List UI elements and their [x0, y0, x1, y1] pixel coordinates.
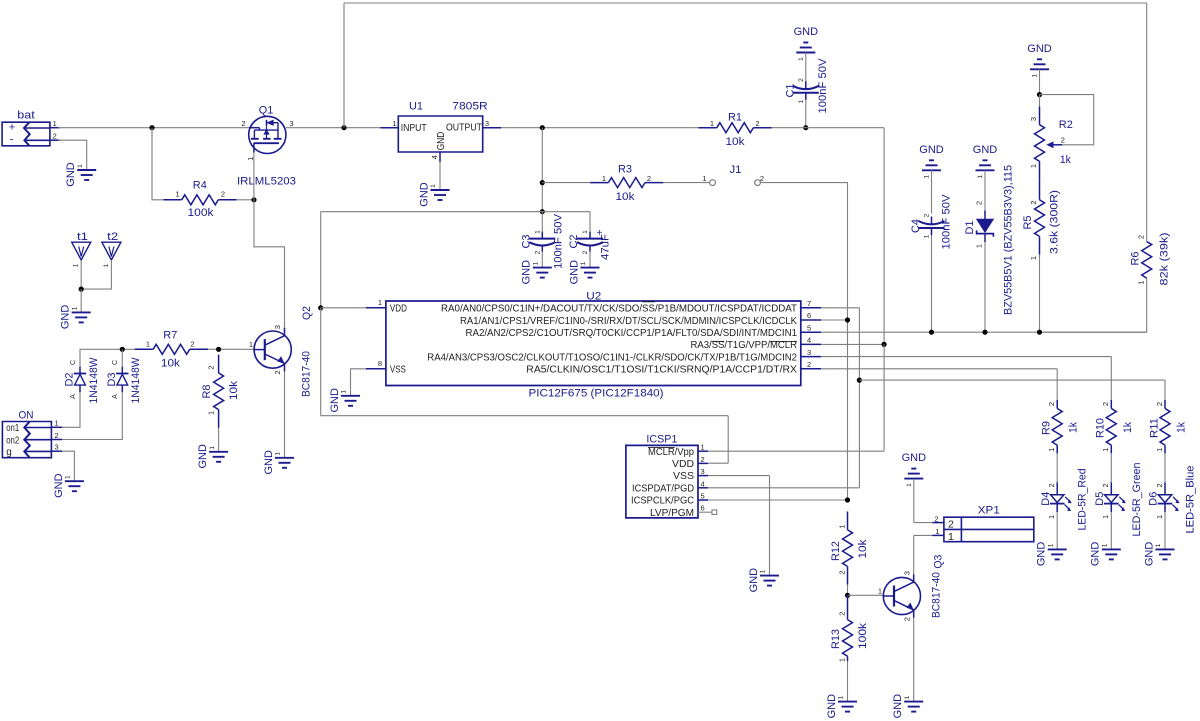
wire C3 drop [541, 212, 543, 232]
resistor R11 1k [1148, 400, 1187, 454]
svg-text:GND: GND [794, 26, 819, 38]
svg-text:MCLR/Vpp: MCLR/Vpp [648, 447, 694, 458]
svg-text:1: 1 [1029, 256, 1038, 260]
ground GND below D4 [1036, 542, 1067, 567]
ground GND below D6 [1143, 542, 1174, 567]
connector bat (battery input) [2, 110, 60, 146]
wire t1 down [80, 260, 82, 289]
svg-text:GND: GND [919, 144, 944, 156]
svg-text:g: g [6, 447, 12, 458]
svg-text:+: + [9, 122, 15, 134]
wire Q3 emitter to GND [913, 618, 915, 701]
svg-text:GND: GND [521, 260, 533, 285]
transistor Q3 BC817-40 [883, 574, 920, 618]
resistor R7 10k [135, 329, 208, 369]
svg-text:VDD: VDD [390, 304, 407, 315]
junction R3 tap node [540, 180, 545, 185]
potentiometer R2 1k [1029, 106, 1073, 179]
wire R2 wiper loop [1040, 95, 1094, 145]
wire D3 cathode up [121, 349, 123, 366]
wire GND to C4 [931, 170, 933, 213]
junction R5 rail node [1037, 330, 1042, 335]
svg-text:ICSPDAT/PGD: ICSPDAT/PGD [632, 483, 694, 494]
svg-text:2: 2 [1155, 402, 1164, 406]
wire top rail down right side to R6 [1146, 3, 1148, 242]
svg-text:1: 1 [55, 419, 59, 428]
svg-text:Q2: Q2 [301, 306, 313, 320]
svg-text:100nF 50V: 100nF 50V [941, 194, 953, 250]
wire Q3 collector to XP1 pin1 [914, 535, 933, 574]
svg-text:1: 1 [838, 658, 847, 662]
svg-text:3: 3 [807, 348, 811, 357]
ground GND below R8 [197, 444, 228, 469]
resistor R12 10k [830, 512, 869, 585]
svg-text:1: 1 [175, 189, 179, 198]
svg-text:GND: GND [892, 694, 904, 719]
wire D2 cathode up to R7 net [80, 349, 135, 366]
svg-text:Q1: Q1 [259, 104, 274, 116]
svg-text:1: 1 [392, 119, 396, 128]
svg-text:2: 2 [1101, 402, 1110, 406]
svg-text:1: 1 [702, 174, 706, 183]
resistor R1 10k [699, 111, 772, 148]
svg-text:C: C [70, 360, 77, 365]
svg-text:C4: C4 [910, 219, 922, 233]
junction bat/R4/Q1 node [149, 125, 154, 130]
junction D3/R7 node [120, 347, 125, 352]
svg-text:GND: GND [568, 260, 580, 285]
svg-text:1: 1 [1032, 74, 1039, 78]
svg-text:3: 3 [701, 467, 705, 476]
junction U2 VDD node [318, 305, 323, 310]
svg-text:R8: R8 [201, 385, 213, 399]
svg-text:RA2/AN2/CPS2/C1OUT/SRQ/T0CKI/C: RA2/AN2/CPS2/C1OUT/SRQ/T0CKI/CCP1/P1A/FL… [466, 328, 798, 339]
wire GND to XP1 pin2 [914, 479, 932, 523]
svg-text:LED-5R_Red: LED-5R_Red [1077, 469, 1089, 531]
svg-text:R13: R13 [830, 629, 842, 649]
svg-text:A: A [70, 394, 77, 399]
svg-text:2: 2 [701, 455, 705, 464]
svg-text:3: 3 [485, 119, 489, 128]
wire R5 to RA2 rail [1039, 255, 1041, 333]
wire GND to C1 pin2 [805, 53, 807, 86]
svg-text:ON: ON [19, 409, 34, 421]
wire D3 anode to ON pin2 [62, 392, 122, 439]
svg-text:OUTPUT: OUTPUT [446, 122, 482, 134]
wire R2 top node down [1039, 95, 1041, 107]
svg-text:t2: t2 [107, 231, 118, 243]
resistor R8 10k [201, 355, 240, 428]
svg-text:1: 1 [878, 586, 882, 595]
svg-text:GND: GND [329, 388, 341, 413]
wire U1 output to R1 [501, 127, 699, 129]
svg-text:GND: GND [60, 305, 72, 330]
junction R2 top node [1037, 92, 1042, 97]
wire C1 to output rail [805, 100, 807, 128]
svg-text:2: 2 [647, 174, 651, 183]
wire R13 to GND [847, 661, 849, 701]
svg-text:1: 1 [580, 261, 587, 265]
wire D6 to GND [1164, 512, 1166, 549]
wire R6 to RA2 rail [1043, 278, 1147, 332]
svg-text:2: 2 [1155, 483, 1164, 487]
wire U2 pin4 to MCLR riser [821, 343, 884, 345]
wire D2 anode to ON pin1 [62, 392, 80, 427]
svg-text:2: 2 [1136, 235, 1145, 239]
svg-text:GND: GND [1036, 542, 1048, 567]
svg-text:1: 1 [535, 230, 542, 234]
svg-text:on2: on2 [6, 435, 19, 446]
svg-text:1: 1 [838, 524, 847, 528]
svg-text:on1: on1 [6, 423, 19, 434]
svg-text:LVP/PGM: LVP/PGM [650, 508, 694, 519]
svg-text:R10: R10 [1095, 418, 1107, 438]
svg-text:10k: 10k [161, 357, 181, 369]
wire Q1 drain to Q2 collector [254, 200, 285, 329]
svg-text:R6: R6 [1129, 252, 1141, 266]
svg-text:4: 4 [430, 155, 439, 159]
svg-text:1: 1 [977, 175, 984, 179]
svg-text:10k: 10k [616, 191, 636, 203]
svg-text:2: 2 [1029, 200, 1038, 204]
svg-text:3.6k (300R): 3.6k (300R) [1049, 190, 1061, 254]
svg-text:1k: 1k [1060, 154, 1071, 166]
wire VDD rail down to U2 VDD [320, 212, 322, 308]
ground GND below Q2 [263, 450, 294, 475]
junction U1 output node [540, 125, 545, 130]
ground GND above C1 [794, 26, 819, 61]
svg-text:C1: C1 [785, 84, 797, 98]
svg-text:3: 3 [289, 119, 293, 128]
junction C1 node [803, 125, 808, 130]
wire C2 to GND [589, 252, 591, 268]
svg-text:ICSP1: ICSP1 [646, 433, 677, 445]
wire ICSP LVP/PGM stub [698, 511, 712, 513]
svg-text:BC817-40: BC817-40 [301, 351, 313, 397]
svg-text:1: 1 [206, 411, 215, 415]
wire RA0 branch to R11 [859, 380, 1165, 400]
wire VDD node to U2 pin1 [321, 307, 366, 309]
svg-text:1: 1 [73, 263, 80, 267]
svg-text:1: 1 [838, 695, 845, 699]
svg-text:1: 1 [65, 475, 72, 479]
svg-text:bat: bat [17, 110, 35, 122]
svg-text:1: 1 [1029, 164, 1038, 168]
svg-text:2: 2 [535, 250, 542, 254]
svg-text:1: 1 [1155, 515, 1164, 519]
wire R10 to D5 [1110, 453, 1112, 482]
svg-text:GND: GND [197, 444, 209, 469]
junction RA0 net to R11 branch [857, 378, 862, 383]
svg-text:1: 1 [1101, 448, 1110, 452]
ground GND below C3 [521, 260, 552, 285]
svg-text:R7: R7 [163, 329, 177, 341]
wire VDD rail to C2/C3 [321, 212, 590, 232]
svg-text:1: 1 [103, 263, 110, 267]
svg-text:Q3: Q3 [933, 555, 945, 569]
svg-text:1: 1 [935, 527, 939, 536]
svg-text:2: 2 [838, 612, 847, 616]
svg-text:2: 2 [798, 78, 805, 82]
ground GND above D1 [973, 144, 998, 179]
svg-text:2: 2 [55, 431, 59, 440]
wire C3 to GND [541, 252, 543, 268]
svg-text:4: 4 [807, 336, 811, 345]
svg-text:R3: R3 [618, 164, 632, 176]
svg-text:GND: GND [1090, 542, 1102, 567]
svg-text:D2: D2 [64, 373, 76, 387]
junction R4/Q1 drain node [251, 197, 256, 202]
svg-text:1: 1 [924, 234, 931, 238]
svg-text:2: 2 [1047, 402, 1056, 406]
ground GND above XP1 [902, 452, 927, 487]
svg-text:BC817-40: BC817-40 [931, 572, 943, 618]
testpoint t1 [72, 231, 91, 268]
svg-text:82k (39k): 82k (39k) [1159, 233, 1171, 286]
wire GND to R2 node [1039, 69, 1041, 94]
svg-text:1k: 1k [1068, 422, 1080, 433]
svg-text:LED-5R_Blue: LED-5R_Blue [1185, 466, 1197, 534]
svg-text:100nF 50V: 100nF 50V [553, 213, 565, 269]
svg-text:2: 2 [190, 339, 194, 348]
svg-text:-: - [10, 134, 14, 146]
svg-text:1: 1 [209, 446, 216, 450]
svg-text:GND: GND [263, 450, 275, 475]
diode D2 1N4148W [64, 357, 100, 404]
ground GND below Q3 [892, 694, 923, 719]
svg-text:1: 1 [1136, 280, 1145, 284]
svg-text:1: 1 [249, 340, 253, 349]
wire U2 pin6 to ICSPCLK net [821, 319, 848, 321]
wire D5 to GND [1110, 512, 1112, 549]
diode D3 1N4148W [106, 357, 142, 404]
svg-text:3: 3 [902, 571, 911, 575]
svg-text:INPUT: INPUT [401, 122, 427, 134]
capacitor C2 47uF [577, 232, 603, 252]
transistor Q1 IRLML5203 P-MOSFET [237, 104, 296, 187]
ground GND above C4 [919, 144, 944, 179]
capacitor C3 100nF 50V [529, 232, 555, 252]
svg-text:8: 8 [378, 359, 382, 368]
wire R7 pin2 to Q2 base [208, 348, 254, 350]
svg-text:1: 1 [904, 695, 911, 699]
svg-text:100nF 50V: 100nF 50V [817, 58, 829, 114]
ground GND below C2 [568, 260, 599, 285]
resistor R9 1k [1041, 400, 1080, 454]
svg-text:6: 6 [701, 504, 705, 513]
wire Q1 drain right to U1 input [286, 127, 381, 129]
svg-text:1: 1 [1155, 448, 1164, 452]
junction ICSPCLK/R12 node [845, 497, 850, 502]
junction ICSPCLK/J1 node [845, 317, 850, 322]
svg-text:2: 2 [241, 119, 245, 128]
wire R9 to D4 [1056, 453, 1058, 482]
ground GND below ON [53, 473, 84, 498]
wire R11 to D6 [1164, 453, 1166, 482]
svg-text:1: 1 [1047, 448, 1056, 452]
wire U2 pin7 RA0 net [708, 308, 859, 488]
svg-text:1: 1 [378, 298, 382, 307]
svg-text:3: 3 [1029, 117, 1038, 121]
svg-text:1: 1 [760, 569, 767, 573]
svg-text:2: 2 [807, 360, 811, 369]
capacitor C1 100nF 50V [793, 81, 819, 100]
junction R12/R13/Q3 base node [845, 593, 850, 598]
svg-text:1: 1 [533, 261, 540, 265]
diode D1 zener BZV55B5V1 [964, 165, 1015, 315]
wire R1 pin2 to MCLR riser [772, 128, 884, 345]
svg-text:1: 1 [77, 164, 84, 168]
ground GND below R13 [826, 694, 857, 719]
svg-text:D6: D6 [1148, 492, 1160, 506]
svg-text:1N4148W: 1N4148W [88, 357, 100, 404]
svg-text:D4: D4 [1040, 492, 1052, 506]
svg-text:BZV55B5V1 (BZV55B3V3),115: BZV55B5V1 (BZV55B3V3),115 [1003, 165, 1015, 315]
svg-text:RA1/AN1/CPS1/VREF/C1IN0-/SRI/R: RA1/AN1/CPS1/VREF/C1IN0-/SRI/RX/DT/SCL/S… [460, 316, 797, 327]
LED D6 LED-5R_Blue [1148, 466, 1197, 534]
wire top rail [344, 2, 1147, 4]
svg-text:2: 2 [273, 370, 282, 374]
svg-text:1: 1 [1047, 543, 1054, 547]
svg-text:2: 2 [53, 131, 57, 140]
svg-text:GND: GND [65, 162, 77, 187]
svg-text:RA3/SS/T1G/VPP/MCLR: RA3/SS/T1G/VPP/MCLR [691, 340, 798, 351]
svg-text:GND: GND [973, 144, 998, 156]
svg-text:100k: 100k [188, 207, 215, 219]
LED D4 LED-5R_Red [1040, 469, 1089, 531]
svg-text:GND: GND [902, 452, 927, 464]
svg-text:IRLML5203: IRLML5203 [237, 175, 296, 187]
junction R7/R8/Q2 base node [216, 347, 221, 352]
wire Q2 emitter to GND [284, 371, 286, 457]
wire C4 to RA2 rail [931, 235, 933, 332]
ground GND below D5 [1090, 542, 1121, 567]
svg-text:2: 2 [1047, 483, 1056, 487]
svg-text:R2: R2 [1059, 119, 1073, 131]
svg-text:1: 1 [341, 390, 348, 394]
ground GND below U2 VSS [329, 388, 360, 413]
wire ICSP ICSPCLK [708, 499, 848, 501]
svg-text:R9: R9 [1041, 421, 1053, 435]
svg-text:RA0/AN0/CPS0/C1IN+/DACOUT/TX/C: RA0/AN0/CPS0/C1IN+/DACOUT/TX/CK/SDO/SS/P… [441, 304, 797, 315]
svg-text:10k: 10k [726, 136, 746, 148]
svg-text:1k: 1k [1122, 422, 1134, 433]
svg-text:1N4148W: 1N4148W [130, 357, 142, 404]
junction C4 rail node [929, 330, 934, 335]
wire MCLR riser to ICSP pin1 [708, 344, 884, 451]
connector XP1 [932, 504, 1034, 543]
resistor R10 1k [1095, 400, 1134, 454]
svg-text:D5: D5 [1094, 492, 1106, 506]
wire ICSP VSS to GND [708, 476, 770, 576]
ground GND below ICSP VSS [748, 568, 779, 593]
svg-text:U1: U1 [409, 101, 423, 113]
wire U2 VSS to GND [351, 369, 367, 396]
svg-text:R4: R4 [193, 180, 207, 192]
svg-text:1k: 1k [1176, 422, 1188, 433]
svg-text:2: 2 [206, 366, 215, 370]
junction C3 rail node [540, 209, 545, 214]
wire VDD to ICSP VDD [321, 416, 729, 464]
svg-text:A: A [112, 394, 119, 399]
IC U2 PIC12F675 [366, 291, 821, 400]
svg-text:7: 7 [807, 299, 811, 308]
resistor R13 100k [830, 595, 869, 662]
svg-text:ICSPCLK/PGC: ICSPCLK/PGC [631, 496, 694, 507]
wire Q1 gate down to drain junction [253, 153, 255, 200]
svg-text:1: 1 [53, 119, 57, 128]
wire riser to top rail [343, 3, 345, 128]
svg-text:1: 1 [146, 339, 150, 348]
wire U2 pin2 to R9 [821, 369, 1057, 400]
junction D1 rail node [982, 330, 987, 335]
svg-text:10k: 10k [857, 539, 869, 559]
wire D4 to GND [1056, 512, 1058, 549]
junction t1/t2 node [79, 287, 84, 292]
svg-text:D3: D3 [106, 373, 118, 387]
svg-text:2: 2 [755, 119, 759, 128]
svg-text:2: 2 [902, 617, 911, 621]
svg-text:2: 2 [948, 519, 954, 531]
LED D5 LED-5R_Green [1094, 463, 1143, 537]
svg-text:GND: GND [1027, 43, 1052, 55]
wire base node to Q3 [848, 594, 884, 596]
wire junction down to R4 pin1 [152, 128, 163, 200]
wire VDD node down [320, 308, 322, 416]
svg-text:C3: C3 [521, 235, 533, 249]
wire ON g to GND [62, 451, 74, 481]
svg-text:1: 1 [975, 244, 984, 248]
wire R12 to base node [847, 585, 849, 596]
svg-text:GND: GND [53, 473, 65, 498]
svg-text:1: 1 [71, 306, 78, 310]
wire t2 down to t1 net [81, 260, 111, 289]
svg-text:1: 1 [948, 531, 954, 543]
wire t node to GND [80, 289, 82, 312]
svg-text:GND: GND [418, 182, 430, 207]
svg-text:4: 4 [701, 479, 705, 488]
capacitor C4 100nF 50V [919, 217, 945, 236]
ground GND below t1/t2 [60, 305, 91, 330]
svg-text:1: 1 [906, 483, 913, 487]
resistor R5 3.6k [1022, 180, 1061, 260]
svg-text:+: + [597, 228, 603, 239]
wire output node down to C3 rail [541, 128, 543, 212]
wire R3 pin2 to J1 pin1 [663, 182, 709, 184]
svg-text:3: 3 [55, 443, 59, 452]
wire GND to D1 [984, 170, 986, 210]
resistor R4 100k [163, 180, 236, 220]
svg-text:R5: R5 [1022, 216, 1034, 230]
svg-text:2: 2 [1061, 136, 1065, 145]
svg-text:VSS: VSS [390, 365, 406, 376]
svg-text:RA4/AN3/CPS3/OSC2/CLKOUT/T1OSO: RA4/AN3/CPS3/OSC2/CLKOUT/T1OSO/C1IN1-/CL… [427, 352, 797, 363]
svg-text:U2: U2 [586, 291, 601, 303]
svg-text:R12: R12 [830, 541, 842, 561]
svg-text:2: 2 [924, 213, 931, 217]
svg-text:100k: 100k [857, 622, 869, 649]
wire R4 pin2 to drain node [237, 199, 254, 201]
svg-text:1: 1 [798, 57, 805, 61]
svg-text:5: 5 [701, 492, 705, 501]
svg-text:1: 1 [1155, 543, 1162, 547]
resistor R3 10k [590, 164, 663, 204]
svg-text:C2: C2 [568, 235, 580, 249]
testpoint t2 [102, 231, 121, 268]
svg-text:1: 1 [710, 119, 714, 128]
ground GND below bat [65, 162, 96, 187]
svg-text:XP1: XP1 [978, 504, 1000, 516]
